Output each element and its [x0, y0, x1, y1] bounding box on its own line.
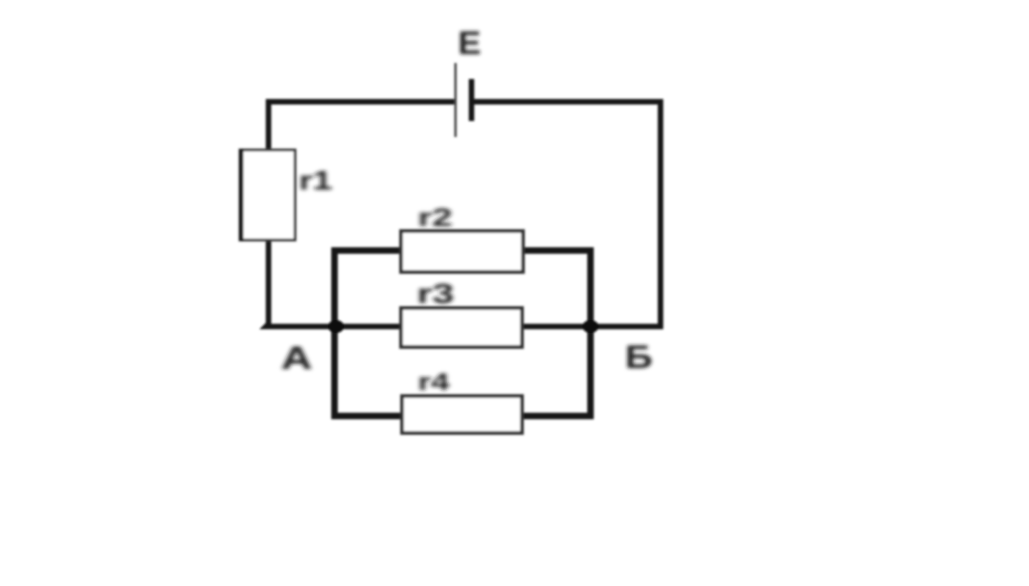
svg-text:r4: r4	[418, 369, 449, 396]
svg-text:r3: r3	[417, 278, 454, 309]
svg-text:Б: Б	[625, 340, 653, 375]
svg-text:r2: r2	[418, 204, 452, 232]
svg-text:E: E	[458, 26, 481, 62]
svg-text:A: A	[281, 341, 312, 376]
svg-text:r1: r1	[299, 165, 332, 195]
